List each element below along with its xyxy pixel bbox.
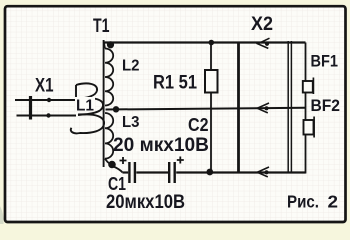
svg-text:C2: C2 — [188, 115, 209, 135]
earphone BF1 — [303, 81, 313, 93]
phase dot L2 — [107, 41, 114, 48]
svg-text:C1: C1 — [108, 174, 126, 194]
connector X1 — [15, 96, 76, 120]
X2 socket lines — [287, 41, 289, 174]
X2 contact arrow bottom — [257, 167, 269, 177]
junction dot top of R1 — [209, 40, 215, 46]
svg-text:BF1: BF1 — [311, 52, 339, 71]
middle wire (center tap) — [106, 108, 306, 110]
svg-text:2: 2 — [328, 192, 339, 212]
wire from L3 to bottom wire — [114, 167, 123, 173]
svg-text:Рис.: Рис. — [287, 192, 319, 212]
winding L3 (secondary bottom) — [105, 113, 113, 165]
X2 contact arrow top — [258, 38, 270, 48]
wire BF1-BF2 — [305, 93, 307, 121]
X2 joining line — [237, 43, 240, 173]
svg-text:BF2: BF2 — [311, 96, 341, 115]
capacitor C1 — [128, 162, 130, 183]
junction dot center tap — [113, 106, 119, 112]
resistor R1 — [210, 43, 212, 71]
label L1 — [75, 97, 95, 111]
svg-text:L2: L2 — [122, 58, 140, 75]
svg-text:20мкх10В: 20мкх10В — [106, 192, 185, 213]
svg-text:20 мкх10В: 20 мкх10В — [113, 135, 209, 156]
earphone BF2 — [304, 120, 314, 135]
svg-text:X2: X2 — [251, 14, 273, 35]
junction dot bottom of R1 — [206, 169, 213, 176]
terminal dot L3 bottom — [108, 161, 116, 169]
transformer core — [103, 40, 105, 167]
svg-text:T1: T1 — [93, 16, 110, 37]
bottom wire — [123, 171, 129, 173]
svg-text:X1: X1 — [35, 76, 54, 97]
wire to BF chain — [305, 43, 307, 82]
capacitor C2 — [168, 162, 170, 183]
svg-text:R1 51: R1 51 — [153, 73, 197, 94]
winding L2 (secondary top) — [104, 43, 113, 106]
wire BF2 to bottom — [305, 135, 307, 174]
plus C2 — [177, 157, 184, 164]
svg-text:L1: L1 — [76, 98, 94, 115]
winding L1 (transformer primary) — [71, 83, 104, 133]
top wire — [104, 41, 306, 43]
svg-text:L3: L3 — [122, 114, 140, 131]
X2 contact arrow middle — [257, 103, 269, 113]
plus C1 — [120, 157, 127, 164]
